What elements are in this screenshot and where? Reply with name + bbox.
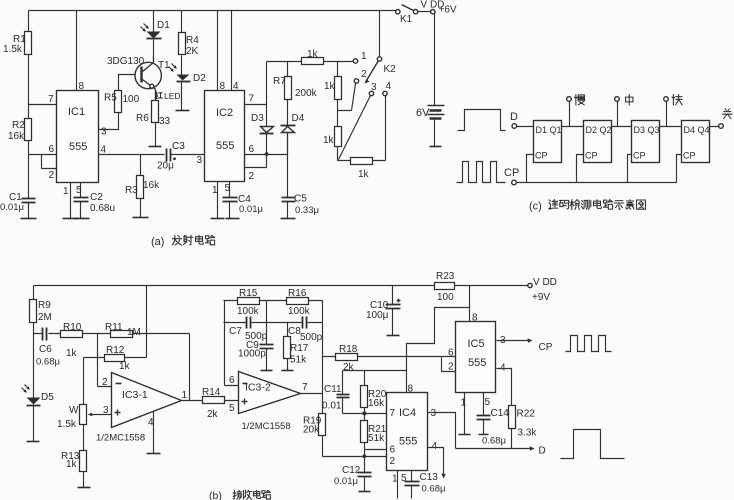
svg-text:1k: 1k bbox=[358, 169, 370, 180]
svg-text:+9V: +9V bbox=[532, 292, 550, 303]
svg-text:T1: T1 bbox=[158, 60, 170, 71]
svg-text:1k: 1k bbox=[66, 348, 78, 359]
svg-text:D1 Q1: D1 Q1 bbox=[536, 125, 562, 135]
svg-text:100k: 100k bbox=[288, 306, 311, 317]
svg-text:1k: 1k bbox=[119, 361, 131, 372]
svg-text:8: 8 bbox=[220, 81, 226, 92]
svg-text:D5: D5 bbox=[41, 392, 54, 403]
svg-text:555: 555 bbox=[468, 357, 486, 369]
svg-text:100: 100 bbox=[437, 292, 454, 303]
svg-text:LED: LED bbox=[164, 91, 181, 101]
svg-text:6: 6 bbox=[229, 375, 235, 386]
svg-text:5: 5 bbox=[225, 183, 231, 194]
svg-text:R4: R4 bbox=[186, 35, 199, 46]
svg-text:2: 2 bbox=[49, 170, 55, 181]
svg-text:D: D bbox=[539, 446, 546, 457]
svg-text:3: 3 bbox=[431, 408, 437, 419]
svg-text:R17: R17 bbox=[290, 343, 309, 354]
svg-text:R5: R5 bbox=[104, 93, 117, 104]
svg-text:16k: 16k bbox=[368, 398, 385, 409]
svg-text:C5: C5 bbox=[294, 194, 307, 205]
svg-text:+6V: +6V bbox=[439, 5, 457, 16]
svg-text:1: 1 bbox=[461, 398, 467, 409]
svg-text:6V: 6V bbox=[416, 107, 430, 119]
svg-text:R23: R23 bbox=[436, 271, 455, 282]
svg-text:20k: 20k bbox=[303, 425, 320, 436]
svg-text:1: 1 bbox=[361, 51, 367, 62]
svg-text:4: 4 bbox=[101, 145, 107, 156]
svg-text:7: 7 bbox=[390, 408, 396, 419]
svg-text:4: 4 bbox=[386, 81, 392, 92]
svg-text:2k: 2k bbox=[343, 362, 355, 373]
svg-text:2: 2 bbox=[448, 362, 454, 373]
svg-text:D4 Q4: D4 Q4 bbox=[684, 125, 710, 135]
svg-text:CP: CP bbox=[539, 342, 553, 353]
svg-text:555: 555 bbox=[399, 436, 417, 448]
svg-text:1: 1 bbox=[182, 390, 188, 401]
svg-text:1k: 1k bbox=[323, 135, 335, 146]
svg-text:6: 6 bbox=[49, 144, 55, 155]
svg-text:4: 4 bbox=[233, 81, 239, 92]
svg-text:C7: C7 bbox=[229, 326, 242, 337]
svg-text:C6: C6 bbox=[39, 344, 52, 355]
svg-text:7: 7 bbox=[302, 382, 308, 393]
svg-text:R15: R15 bbox=[239, 288, 258, 299]
svg-text:0.01: 0.01 bbox=[322, 401, 342, 412]
svg-text:555: 555 bbox=[69, 141, 87, 153]
svg-text:7: 7 bbox=[48, 94, 54, 105]
svg-text:0.68μ: 0.68μ bbox=[36, 357, 60, 368]
svg-text:3DG130: 3DG130 bbox=[107, 56, 145, 67]
svg-text:5: 5 bbox=[229, 403, 235, 414]
svg-text:4: 4 bbox=[432, 441, 438, 452]
svg-text:1.5k: 1.5k bbox=[3, 44, 23, 55]
svg-text:R12: R12 bbox=[106, 345, 125, 356]
svg-text:33: 33 bbox=[159, 116, 171, 127]
svg-text:(b): (b) bbox=[209, 490, 222, 500]
svg-text:R18: R18 bbox=[339, 344, 358, 355]
svg-text:K2: K2 bbox=[384, 64, 397, 75]
svg-text:1k: 1k bbox=[66, 459, 78, 470]
svg-text:(a): (a) bbox=[151, 236, 164, 248]
svg-text:IC3-2: IC3-2 bbox=[245, 382, 271, 394]
svg-text:8: 8 bbox=[408, 384, 414, 395]
svg-text:51k: 51k bbox=[368, 433, 385, 444]
svg-text:W: W bbox=[69, 405, 79, 416]
svg-text:1/2MC1558: 1/2MC1558 bbox=[242, 421, 291, 432]
svg-text:6: 6 bbox=[390, 445, 396, 456]
svg-text:0.01μ: 0.01μ bbox=[239, 204, 263, 215]
svg-text:C12: C12 bbox=[342, 465, 361, 476]
svg-text:V DD: V DD bbox=[533, 277, 557, 288]
svg-text:C2: C2 bbox=[90, 192, 103, 203]
svg-text:2k: 2k bbox=[207, 409, 219, 420]
svg-text:K1: K1 bbox=[400, 14, 413, 25]
svg-text:3: 3 bbox=[197, 155, 203, 166]
svg-text:3: 3 bbox=[103, 405, 109, 416]
svg-text:0.33μ: 0.33μ bbox=[295, 205, 319, 216]
svg-text:(c): (c) bbox=[529, 201, 542, 213]
svg-text:0.68u: 0.68u bbox=[90, 203, 115, 214]
svg-text:16k: 16k bbox=[143, 180, 160, 191]
svg-text:0.01μ: 0.01μ bbox=[0, 202, 24, 213]
svg-text:D4: D4 bbox=[292, 113, 305, 124]
svg-text:1k: 1k bbox=[324, 81, 336, 92]
svg-text:0.68μ: 0.68μ bbox=[482, 436, 506, 447]
svg-text:R7: R7 bbox=[273, 76, 286, 87]
svg-text:100k: 100k bbox=[237, 306, 260, 317]
svg-text:R9: R9 bbox=[38, 300, 51, 311]
svg-text:R14: R14 bbox=[202, 387, 221, 398]
svg-text:0.68μ: 0.68μ bbox=[422, 484, 446, 495]
svg-text:5: 5 bbox=[76, 185, 82, 196]
svg-text:5: 5 bbox=[485, 397, 491, 408]
svg-text:R11: R11 bbox=[105, 322, 123, 333]
svg-text:R2: R2 bbox=[12, 120, 25, 131]
svg-text:R10: R10 bbox=[63, 322, 82, 333]
svg-text:2: 2 bbox=[102, 377, 108, 388]
svg-text:3: 3 bbox=[101, 127, 107, 138]
svg-text:IC2: IC2 bbox=[216, 107, 233, 119]
svg-text:20μ: 20μ bbox=[157, 161, 174, 172]
svg-text:IC4: IC4 bbox=[399, 407, 416, 419]
svg-text:R22: R22 bbox=[517, 409, 536, 420]
svg-text:C13: C13 bbox=[420, 472, 439, 483]
svg-text:51k: 51k bbox=[290, 355, 307, 366]
svg-text:D2: D2 bbox=[193, 73, 206, 84]
svg-text:IC5: IC5 bbox=[468, 338, 485, 350]
svg-text:2: 2 bbox=[361, 69, 367, 80]
svg-text:CP: CP bbox=[585, 151, 598, 161]
svg-text:16k: 16k bbox=[8, 131, 25, 142]
svg-text:1/2MC1558: 1/2MC1558 bbox=[96, 433, 145, 444]
svg-text:D3: D3 bbox=[251, 113, 264, 124]
svg-text:1000p: 1000p bbox=[238, 349, 266, 360]
svg-text:2: 2 bbox=[390, 456, 396, 467]
svg-text:555: 555 bbox=[216, 140, 234, 152]
svg-text:CP: CP bbox=[504, 167, 519, 179]
svg-text:D: D bbox=[510, 111, 518, 123]
svg-text:7: 7 bbox=[249, 94, 255, 105]
svg-text:R16: R16 bbox=[288, 288, 307, 299]
svg-text:500p: 500p bbox=[300, 332, 323, 343]
svg-text:2: 2 bbox=[249, 171, 255, 182]
svg-text:D2 Q2: D2 Q2 bbox=[586, 125, 612, 135]
svg-text:R3: R3 bbox=[125, 185, 138, 196]
svg-text:1: 1 bbox=[63, 186, 69, 197]
svg-text:CP: CP bbox=[535, 151, 548, 161]
svg-text:200k: 200k bbox=[295, 88, 318, 99]
svg-text:8: 8 bbox=[472, 313, 478, 324]
svg-text:D1: D1 bbox=[157, 20, 170, 31]
svg-text:CP: CP bbox=[633, 151, 646, 161]
svg-text:1k: 1k bbox=[307, 49, 319, 60]
svg-text:C3: C3 bbox=[172, 141, 185, 152]
svg-text:1M: 1M bbox=[127, 327, 141, 338]
svg-text:100μ: 100μ bbox=[366, 310, 389, 321]
svg-text:1.5k: 1.5k bbox=[57, 419, 77, 430]
svg-text:6: 6 bbox=[448, 348, 454, 359]
svg-text:CP: CP bbox=[683, 151, 696, 161]
svg-text:8: 8 bbox=[79, 81, 85, 92]
svg-text:C11: C11 bbox=[324, 384, 342, 395]
svg-text:D3 Q3: D3 Q3 bbox=[634, 125, 660, 135]
svg-text:1: 1 bbox=[212, 185, 218, 196]
svg-text:3: 3 bbox=[371, 82, 377, 93]
svg-text:IC1: IC1 bbox=[68, 106, 85, 118]
svg-text:C14: C14 bbox=[491, 408, 510, 419]
svg-text:3.3k: 3.3k bbox=[518, 428, 538, 439]
svg-text:100: 100 bbox=[123, 94, 140, 105]
svg-text:2M: 2M bbox=[38, 312, 52, 323]
svg-text:0.01μ: 0.01μ bbox=[334, 476, 358, 487]
svg-text:2K: 2K bbox=[186, 46, 199, 57]
svg-text:R6: R6 bbox=[136, 113, 149, 124]
svg-text:6: 6 bbox=[249, 144, 255, 155]
svg-text:IC3-1: IC3-1 bbox=[122, 389, 148, 401]
svg-text:4: 4 bbox=[148, 417, 154, 428]
